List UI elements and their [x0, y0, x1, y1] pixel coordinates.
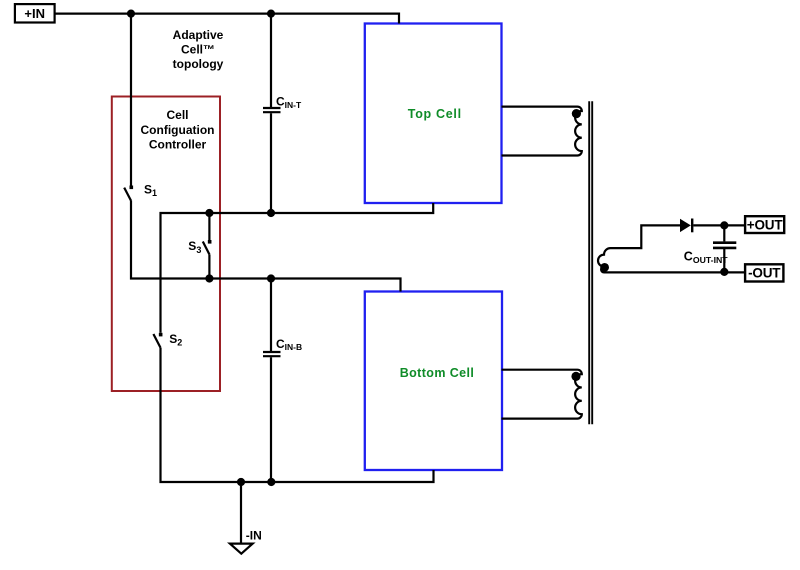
svg-text:Controller: Controller: [149, 138, 207, 152]
svg-text:-OUT: -OUT: [748, 266, 781, 281]
svg-text:+OUT: +OUT: [747, 217, 784, 232]
svg-text:Configuation: Configuation: [141, 123, 215, 137]
svg-text:-IN: -IN: [246, 529, 262, 543]
svg-text:+IN: +IN: [24, 6, 45, 21]
svg-text:Cell™: Cell™: [181, 42, 215, 56]
svg-text:Bottom Cell: Bottom Cell: [400, 366, 475, 380]
svg-text:Top Cell: Top Cell: [408, 107, 462, 121]
svg-text:Adaptive: Adaptive: [173, 28, 224, 42]
svg-text:Cell: Cell: [166, 108, 188, 122]
svg-text:topology: topology: [173, 57, 224, 71]
